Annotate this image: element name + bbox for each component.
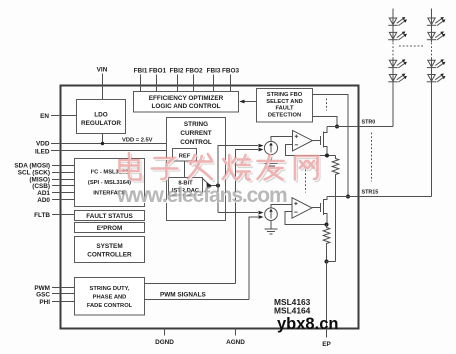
watermark www.elecfans.com (116, 184, 288, 208)
wire CSB stub (52, 185, 75, 187)
resistor R2 (323, 225, 330, 262)
LED D2 (388, 31, 407, 40)
node STR15 FBO junction (346, 195, 350, 199)
wire I1 to op-amp noninverting input (271, 137, 293, 142)
wire FBO lower tap to STR0 (313, 117, 338, 127)
outer chip boundary box (61, 86, 359, 329)
svg-text:FADE CONTROL: FADE CONTROL (87, 303, 133, 309)
LED string 1 wire (392, 9, 394, 43)
svg-text:VDD = 2.5V: VDD = 2.5V (122, 138, 153, 144)
dashed repeat marker channels (305, 170, 307, 193)
wire STR15 line (327, 196, 432, 198)
svg-text:FBO2: FBO2 (185, 68, 202, 75)
wire VDD rail (51, 143, 167, 145)
node STR0 FBO junction (335, 125, 339, 129)
svg-text:EN: EN (40, 113, 49, 120)
svg-text:STR0: STR0 (362, 120, 376, 126)
block U10 system controller (75, 237, 145, 263)
wire VIN stub (102, 74, 104, 100)
svg-text:SYSTEM: SYSTEM (96, 243, 122, 250)
wire FBO to efficiency optimizer with arrow (239, 100, 256, 104)
wire U1 feedback (286, 145, 336, 156)
node EP junction (325, 260, 329, 264)
svg-text:PHASE AND: PHASE AND (93, 295, 127, 301)
svg-text:PWM SIGNALS: PWM SIGNALS (160, 292, 207, 299)
wire PWM signals line (145, 299, 250, 301)
wire STR0 line (327, 126, 393, 128)
wire FBO upper tap to STR15 (313, 95, 349, 197)
node DAC bus junction (216, 184, 220, 188)
block U4 string current control (167, 118, 226, 221)
svg-text:MSL4164: MSL4164 (274, 306, 311, 316)
wire ISTR rail A to current source I2 (218, 212, 258, 214)
svg-text:REF: REF (179, 154, 191, 160)
svg-text:VDD: VDD (36, 141, 50, 148)
block U12 string FBO select and fault detection (257, 89, 313, 123)
wire FBO3 stub (230, 75, 232, 92)
svg-text:FAULT: FAULT (275, 106, 294, 112)
LED D6 (427, 31, 446, 40)
svg-text:AD1: AD1 (37, 190, 50, 197)
svg-text:EP: EP (322, 341, 331, 348)
transistor Q1 NMOS (321, 127, 328, 156)
svg-text:LDO: LDO (94, 112, 108, 119)
svg-text:FBI3: FBI3 (207, 68, 221, 75)
wire I1 ground stub (270, 155, 272, 163)
op-amp U1 (293, 130, 313, 151)
svg-text:(CSB): (CSB) (32, 183, 50, 190)
wire SDA stub (52, 165, 75, 167)
svg-text:www.elecfans.com: www.elecfans.com (116, 184, 287, 207)
block U5 REF (173, 149, 197, 162)
svg-text:FLTB: FLTB (34, 212, 50, 219)
svg-text:DGND: DGND (155, 339, 174, 346)
svg-text:ybx8.cn: ybx8.cn (277, 315, 338, 333)
LED D1 (388, 17, 407, 26)
svg-text:VIN: VIN (97, 67, 108, 74)
block U7 I2C SPI interface (75, 159, 145, 207)
wire LDO output stub (102, 134, 104, 144)
wire EP rail (326, 262, 328, 329)
svg-text:SCL (SCK): SCL (SCK) (18, 170, 50, 177)
node Q1 source (325, 154, 329, 158)
wire EN to LDO (51, 115, 77, 117)
svg-text:CONTROL: CONTROL (180, 139, 212, 146)
LED string 2 wire (431, 9, 433, 43)
svg-text:E²PROM: E²PROM (97, 225, 123, 232)
wire ISTR bus rail B (236, 150, 259, 284)
block U8 fault status (75, 211, 145, 221)
pin EP (326, 329, 328, 338)
block U2 LDO regulator (77, 100, 126, 134)
wire ISTR bus rail A (218, 146, 258, 213)
wire FBO2 stub (193, 75, 195, 92)
dashed repeat marker FBO taps (326, 99, 328, 111)
wire AD0 stub (52, 199, 75, 201)
wire GSC stub (52, 293, 75, 295)
svg-text:ILED: ILED (35, 149, 50, 156)
block U9 EEPROM (75, 223, 145, 233)
svg-text:FBO1: FBO1 (149, 68, 166, 75)
wire AD1 stub (52, 192, 75, 194)
svg-text:LOGIC AND CONTROL: LOGIC AND CONTROL (152, 103, 221, 110)
current source I2 (265, 208, 278, 221)
svg-text:FAULT STATUS: FAULT STATUS (86, 213, 133, 220)
wire FBO1 stub (156, 75, 158, 92)
wire FBI1 stub (140, 75, 142, 92)
svg-text:FBO3: FBO3 (222, 68, 239, 75)
block U3 efficiency optimizer logic and control (134, 92, 239, 113)
LED D7 (427, 59, 446, 68)
dashed repeat marker strings STR1-STR14 (371, 133, 373, 182)
wire U13 output to Q2 gate (312, 207, 321, 209)
svg-text:REGULATOR: REGULATOR (81, 120, 121, 127)
wire FBI3 stub (213, 75, 215, 92)
wire U13 feedback (285, 212, 327, 225)
svg-text:AD0: AD0 (37, 197, 50, 204)
wire ILED to REF (51, 150, 173, 152)
node Q2 source (325, 223, 329, 227)
block U11 string duty phase fade control (75, 278, 145, 316)
pin DGND (164, 329, 166, 336)
resistor R1 (332, 156, 339, 262)
wire PHI stub (52, 301, 75, 303)
svg-text:PHI: PHI (39, 299, 50, 306)
wire FLTB stub (52, 214, 75, 216)
LED D3 (388, 59, 407, 68)
wire R1 bottom jog (327, 261, 336, 263)
current source I1 (264, 141, 277, 154)
svg-text:STRING: STRING (184, 121, 208, 128)
wire MISO stub (52, 179, 75, 181)
svg-text:AGND: AGND (226, 339, 245, 346)
ground GND2 (265, 229, 278, 234)
svg-text:DETECTION: DETECTION (268, 112, 301, 118)
svg-text:CURRENT: CURRENT (180, 130, 211, 137)
svg-text:STR15: STR15 (362, 190, 379, 196)
wire FBI2 stub (177, 75, 179, 92)
LED D8 (427, 74, 446, 83)
dashed marker between strings (399, 45, 424, 47)
wire U1 output to Q1 gate (312, 140, 320, 142)
svg-text:FBI2: FBI2 (170, 68, 184, 75)
node VDD junction (101, 142, 104, 145)
arrowheads into current source I2 (259, 211, 264, 215)
svg-text:STRING DUTY,: STRING DUTY, (90, 286, 130, 292)
svg-text:SDA (MOSI): SDA (MOSI) (14, 163, 50, 170)
wire REF to DAC (184, 161, 186, 177)
ground GND1 (265, 164, 278, 169)
wire string duty upper output (145, 283, 236, 285)
pin AGND (235, 329, 237, 336)
LED D4 (388, 74, 407, 83)
svg-text:CONTROLLER: CONTROLLER (87, 252, 132, 259)
svg-text:GSC: GSC (36, 292, 50, 299)
svg-text:STRING FBO: STRING FBO (267, 92, 303, 98)
wire PWM stub (52, 287, 75, 289)
wire PWM rail C (249, 217, 258, 300)
op-amp U13 (292, 198, 312, 219)
block U6 8-bit ISTR DAC (169, 178, 203, 196)
arrowheads into current source I1 (259, 144, 264, 148)
wire SCL stub (52, 172, 75, 174)
LED D5 (427, 17, 446, 26)
wire I2 to op-amp noninverting input (271, 205, 292, 208)
transistor Q2 NMOS (321, 197, 328, 225)
svg-text:SELECT AND: SELECT AND (266, 99, 303, 105)
wire DAC output arrow (203, 179, 219, 192)
wire I2 ground stub (270, 221, 272, 229)
svg-text:EFFICIENCY OPTIMIZER: EFFICIENCY OPTIMIZER (149, 95, 224, 102)
svg-text:FBI1: FBI1 (134, 68, 148, 75)
